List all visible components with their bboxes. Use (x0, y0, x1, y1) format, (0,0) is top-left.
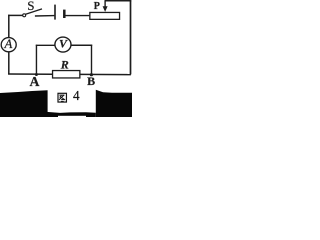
node A junction dot (35, 73, 38, 76)
caption figure glyph 图 (58, 93, 66, 102)
svg-text:A: A (4, 37, 13, 51)
battery short thick plate (negative) (63, 10, 66, 18)
switch S lever (26, 9, 42, 14)
svg-text:R: R (60, 58, 69, 72)
rheostat slider shaft (104, 1, 106, 8)
battery long plate (positive) (54, 5, 56, 20)
svg-text:B: B (87, 74, 95, 88)
wire voltmeter branch left riser (35, 45, 37, 75)
svg-text:4: 4 (73, 88, 80, 103)
wire battery to rheostat (66, 15, 90, 17)
svg-text:S: S (27, 0, 34, 13)
wire bottom main right of resistor (80, 73, 131, 75)
svg-text:A: A (30, 74, 40, 89)
switch S fixed-side wire (35, 15, 55, 17)
black banner bottom-left (0, 90, 48, 117)
wire voltmeter branch top-left (36, 44, 55, 46)
switch S pivot circle (23, 14, 26, 17)
rheostat P body rectangle (90, 12, 120, 19)
svg-text:P: P (94, 1, 100, 12)
wire top-left horizontal (8, 14, 23, 16)
wire voltmeter branch top-right (71, 44, 92, 46)
wire bottom main left of resistor (8, 73, 53, 75)
black banner bottom-right (96, 90, 132, 117)
ammeter A1 circle (1, 38, 16, 52)
voltmeter V1 circle (55, 37, 71, 52)
svg-text:V: V (59, 37, 68, 51)
rheostat slider arrowhead (103, 6, 108, 12)
white sliver below strip (58, 116, 86, 117)
wire voltmeter branch right riser (91, 45, 93, 75)
resistor R body rectangle (53, 71, 80, 78)
wire top-right horizontal (105, 0, 132, 2)
wire right vertical (130, 0, 132, 74)
wire left vertical upper (8, 15, 10, 38)
black strip under caption box (45, 112, 96, 117)
node B junction dot (90, 73, 93, 76)
wire left vertical lower (8, 52, 10, 75)
